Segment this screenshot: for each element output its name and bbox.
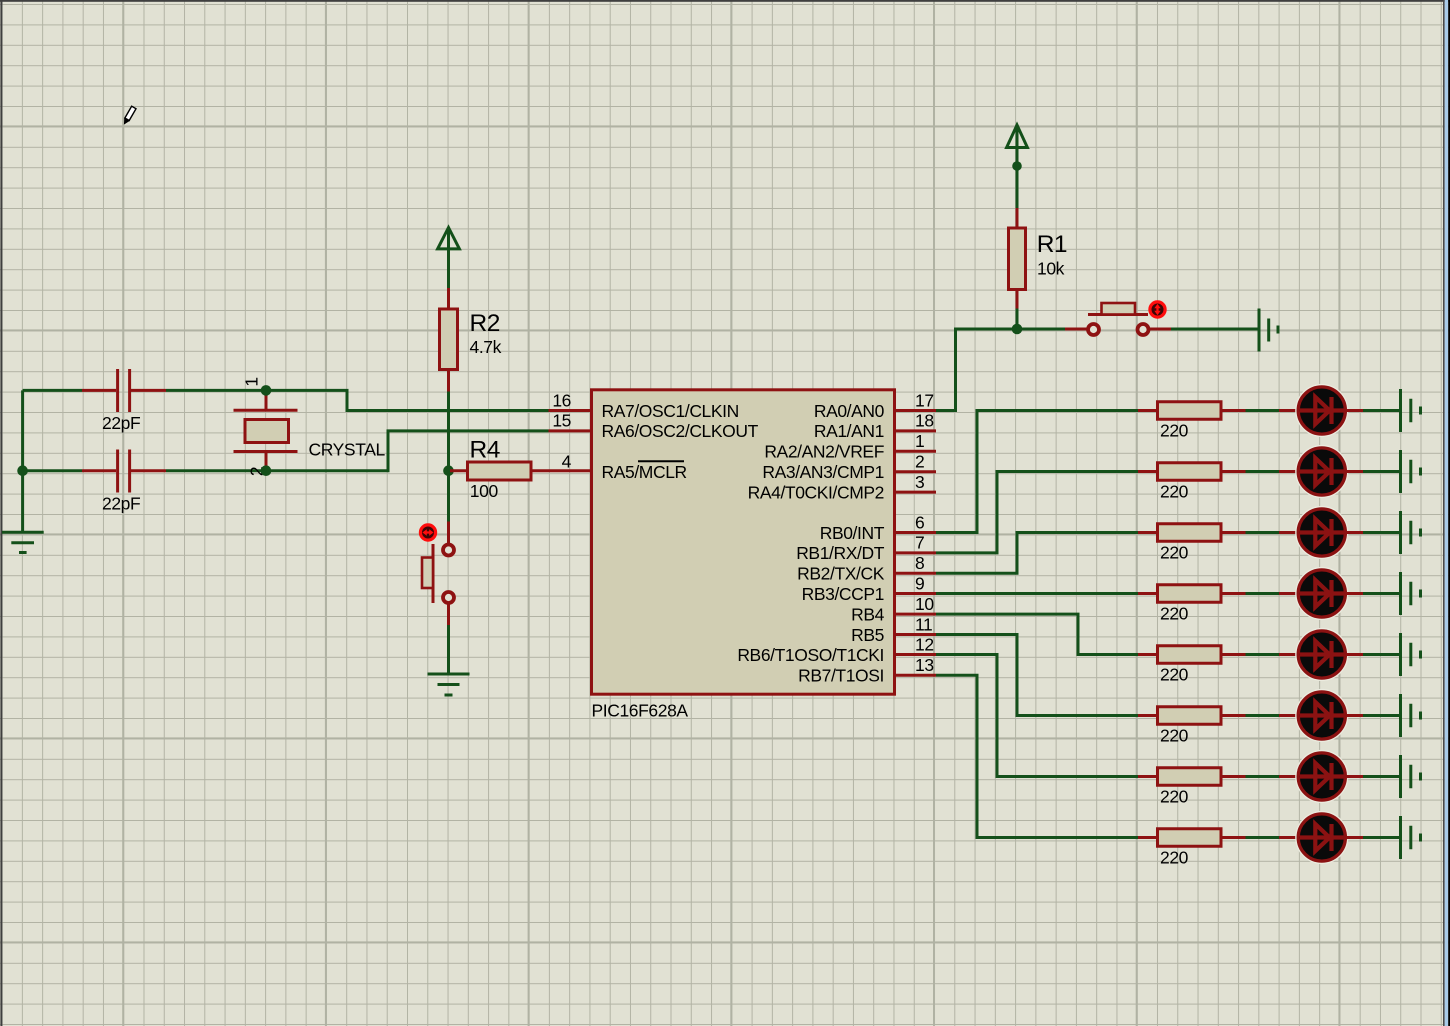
wire resistor to LED D1 xyxy=(1246,409,1280,412)
svg-text:15: 15 xyxy=(552,411,571,431)
svg-text:RB0/INT: RB0/INT xyxy=(820,523,885,543)
LED D2 cathode lead xyxy=(1346,470,1364,473)
svg-text:4: 4 xyxy=(562,452,572,472)
svg-text:10: 10 xyxy=(915,594,934,614)
svg-text:22pF: 22pF xyxy=(102,413,140,433)
IC U1 PIC16F628A body xyxy=(592,390,895,694)
LED D7 symbol xyxy=(1300,763,1344,790)
resistor R5L lead right xyxy=(1221,653,1246,656)
crystal X1 plates xyxy=(234,410,298,451)
LED D3 symbol xyxy=(1300,519,1344,546)
crystal X1 pin 1 lead xyxy=(265,393,268,410)
resistor R2 lead bottom xyxy=(447,370,450,392)
svg-text:220: 220 xyxy=(1160,664,1189,684)
LED row 3: resistor lead left xyxy=(1138,531,1158,534)
svg-text:220: 220 xyxy=(1160,603,1189,623)
LED D5 anode lead xyxy=(1279,653,1298,656)
svg-text:2: 2 xyxy=(915,452,924,472)
wire LED D5 to ground xyxy=(1363,653,1400,656)
wire rail to pin17 xyxy=(936,329,1065,411)
resistor R8L lead right xyxy=(1221,836,1246,839)
ground (crystal left) xyxy=(2,532,44,552)
resistor R3L 220 body xyxy=(1158,524,1222,542)
svg-text:RA5/MCLR: RA5/MCLR xyxy=(602,462,687,482)
wire resistor to LED D5 xyxy=(1246,653,1280,656)
push button SW1 actuator xyxy=(432,544,435,603)
svg-text:RB5: RB5 xyxy=(851,625,884,645)
pin 16 stub xyxy=(549,409,592,412)
MCLR overline xyxy=(638,460,684,462)
LED row 8: resistor lead left xyxy=(1138,836,1158,839)
LED D4 body xyxy=(1296,568,1348,620)
wire pin10 to LED row5 xyxy=(936,614,1138,654)
resistor R8L 220 body xyxy=(1158,829,1222,847)
resistor R3L lead right xyxy=(1221,531,1246,534)
resistor R1 lead bottom xyxy=(1016,290,1019,309)
LED D2 body xyxy=(1296,446,1348,498)
resistor R1 body xyxy=(1009,228,1026,290)
button actuator marker (vertical switch) xyxy=(420,525,435,540)
wire power to R1 xyxy=(1016,166,1019,208)
svg-text:1: 1 xyxy=(242,377,262,386)
svg-text:12: 12 xyxy=(915,634,934,654)
ground (LED row 5) xyxy=(1401,633,1421,676)
LED D8 symbol xyxy=(1300,824,1344,851)
resistor R7L lead right xyxy=(1221,775,1246,778)
svg-text:RA6/OSC2/CLKOUT: RA6/OSC2/CLKOUT xyxy=(602,421,759,441)
svg-text:RA0/AN0: RA0/AN0 xyxy=(814,401,885,421)
svg-text:9: 9 xyxy=(915,573,924,593)
svg-text:16: 16 xyxy=(552,390,571,410)
resistor R4L lead right xyxy=(1221,592,1246,595)
wire pin13 to LED row8 xyxy=(936,675,1138,837)
wire SW1 to ground xyxy=(447,625,450,674)
wire resistor to LED D2 xyxy=(1246,470,1280,473)
crystal X1 body xyxy=(245,420,289,443)
svg-text:RA3/AN3/CMP1: RA3/AN3/CMP1 xyxy=(762,462,884,482)
resistor R6L 220 body xyxy=(1158,707,1222,725)
push button SW2 lead right xyxy=(1150,328,1171,331)
LED D5 body xyxy=(1296,629,1348,681)
wire pin8 to LED row3 xyxy=(936,533,1138,574)
pin 15 stub xyxy=(549,429,592,432)
LED D1 cathode lead xyxy=(1346,409,1364,412)
resistor R2L lead right xyxy=(1221,470,1246,473)
LED row 5: resistor lead left xyxy=(1138,653,1158,656)
resistor R6L lead right xyxy=(1221,714,1246,717)
wire pin6 to LED row1 xyxy=(936,411,1138,533)
wire cap2 to crystal node to chip pin15 xyxy=(166,431,549,471)
LED row 1: resistor lead left xyxy=(1138,409,1158,412)
wire resistor to LED D6 xyxy=(1246,714,1280,717)
LED D6 body xyxy=(1296,690,1348,742)
power symbol VCC (R1) xyxy=(1007,125,1028,166)
wire R2 to node xyxy=(447,392,450,522)
svg-text:10k: 10k xyxy=(1037,259,1065,279)
capacitor C2 plates xyxy=(118,450,130,493)
crystal X1 pin 2 lead xyxy=(265,452,268,468)
node C left rail xyxy=(17,465,28,476)
svg-text:RB3/CCP1: RB3/CCP1 xyxy=(802,584,884,604)
svg-text:RB1/RX/DT: RB1/RX/DT xyxy=(796,543,885,563)
LED D3 body xyxy=(1296,507,1348,559)
LED row 2: resistor lead left xyxy=(1138,470,1158,473)
wire OSC1 top rail xyxy=(23,389,82,392)
svg-text:RB4: RB4 xyxy=(851,604,885,624)
LED D2 anode lead xyxy=(1279,470,1298,473)
resistor R1L 220 body xyxy=(1158,402,1222,420)
LED D1 body xyxy=(1296,385,1348,437)
LED D6 cathode lead xyxy=(1346,714,1364,717)
wire cap1 to crystal node to chip pin16 xyxy=(166,390,549,410)
wire left vertical to ground xyxy=(21,390,24,532)
pencil cursor xyxy=(121,106,136,126)
LED D1 anode lead xyxy=(1279,409,1298,412)
LED D2 symbol xyxy=(1300,458,1344,485)
push button SW2 actuator xyxy=(1088,313,1148,316)
LED D1 symbol xyxy=(1300,397,1344,424)
resistor R1L lead right xyxy=(1221,409,1246,412)
svg-text:RA2/AN2/VREF: RA2/AN2/VREF xyxy=(764,442,884,462)
wire resistor to LED D8 xyxy=(1246,836,1280,839)
resistor R2L 220 body xyxy=(1158,463,1222,481)
right pin stubs RB xyxy=(895,531,937,534)
LED row 7: resistor lead left xyxy=(1138,775,1158,778)
resistor R4 lead left xyxy=(450,469,468,472)
svg-text:18: 18 xyxy=(915,411,934,431)
node B crystal bottom xyxy=(261,465,272,476)
capacitor C2 22pF leads xyxy=(82,469,166,472)
svg-text:100: 100 xyxy=(470,481,499,501)
wire pin12 to LED row7 xyxy=(936,655,1138,777)
capacitor C1 plates xyxy=(118,369,130,412)
wire LED D2 to ground xyxy=(1363,470,1400,473)
window border top xyxy=(0,0,1450,2)
svg-text:4.7k: 4.7k xyxy=(470,337,502,357)
wire rail to SW2 xyxy=(1017,328,1065,331)
svg-text:7: 7 xyxy=(915,533,924,553)
node A crystal top xyxy=(261,385,272,396)
svg-text:11: 11 xyxy=(915,614,932,634)
ground (LED row 4) xyxy=(1401,572,1421,615)
ground (LED row 3) xyxy=(1401,511,1421,554)
push button SW2 button xyxy=(1102,303,1136,315)
resistor R4L 220 body xyxy=(1158,585,1222,603)
ground (LED row 7) xyxy=(1401,755,1421,798)
LED D8 cathode lead xyxy=(1346,836,1364,839)
window border right: gray line, blue strip, black strip xyxy=(1443,0,1445,1026)
wire SW2 to ground xyxy=(1171,328,1259,331)
LED D7 cathode lead xyxy=(1346,775,1364,778)
ground (LED row 6) xyxy=(1401,694,1421,737)
svg-text:RB2/TX/CK: RB2/TX/CK xyxy=(797,564,885,584)
resistor R2 lead top xyxy=(447,288,450,309)
wire LED D3 to ground xyxy=(1363,531,1400,534)
resistor R4 body xyxy=(468,462,532,480)
resistor R2 body xyxy=(440,309,458,370)
svg-text:RA4/T0CKI/CMP2: RA4/T0CKI/CMP2 xyxy=(748,482,884,502)
svg-text:RA7/OSC1/CLKIN: RA7/OSC1/CLKIN xyxy=(602,401,739,421)
svg-text:1: 1 xyxy=(915,431,924,451)
svg-text:R2: R2 xyxy=(470,310,500,337)
LED D7 anode lead xyxy=(1279,775,1298,778)
svg-text:13: 13 xyxy=(915,655,934,675)
wire LED D6 to ground xyxy=(1363,714,1400,717)
right pin stubs RA xyxy=(895,409,937,412)
ground (LED row 2) xyxy=(1401,450,1421,493)
svg-text:220: 220 xyxy=(1160,542,1189,562)
push button SW1 terminal 2 xyxy=(443,592,454,603)
window border left xyxy=(0,0,2,1026)
node F R1 bottom xyxy=(1012,324,1023,335)
wire LED D4 to ground xyxy=(1363,592,1400,595)
push button SW2 terminal 1 xyxy=(1088,324,1099,335)
wire pin11 to LED row6 xyxy=(936,635,1138,716)
wire resistor to LED D4 xyxy=(1246,592,1280,595)
LED D4 anode lead xyxy=(1279,592,1298,595)
svg-text:220: 220 xyxy=(1160,725,1189,745)
LED D4 cathode lead xyxy=(1346,592,1364,595)
resistor R7L 220 body xyxy=(1158,768,1222,786)
svg-text:PIC16F628A: PIC16F628A xyxy=(592,701,689,721)
LED D7 body xyxy=(1296,751,1348,803)
ground (under SW1) xyxy=(428,674,470,695)
wire resistor to LED D3 xyxy=(1246,531,1280,534)
LED D6 symbol xyxy=(1300,702,1344,729)
svg-text:RA1/AN1: RA1/AN1 xyxy=(814,421,884,441)
LED D5 cathode lead xyxy=(1346,653,1364,656)
resistor R4 lead right to pin 4 xyxy=(531,469,592,472)
svg-text:CRYSTAL: CRYSTAL xyxy=(309,440,386,460)
svg-text:220: 220 xyxy=(1160,847,1189,867)
push button SW1 terminal 1 xyxy=(443,545,454,556)
svg-text:RB7/T1OSI: RB7/T1OSI xyxy=(798,666,884,686)
push button SW1 bottom lead xyxy=(447,605,450,626)
LED row 4: resistor lead left xyxy=(1138,592,1158,595)
ground (LED row 8) xyxy=(1401,816,1421,859)
push button SW1 top lead xyxy=(447,522,450,544)
resistor R5L 220 body xyxy=(1158,646,1222,664)
LED D4 symbol xyxy=(1300,580,1344,607)
button actuator marker (horizontal switch) xyxy=(1150,302,1165,317)
push button SW2 terminal 2 xyxy=(1138,324,1149,335)
LED D3 cathode lead xyxy=(1346,531,1364,534)
LED D8 body xyxy=(1296,812,1348,864)
capacitor C1 22pF leads xyxy=(82,389,166,392)
svg-text:6: 6 xyxy=(915,512,924,532)
ground (right of SW2) xyxy=(1259,309,1278,352)
LED D6 anode lead xyxy=(1279,714,1298,717)
node E power/R1 xyxy=(1012,161,1022,171)
LED row 6: resistor lead left xyxy=(1138,714,1158,717)
svg-text:220: 220 xyxy=(1160,420,1189,440)
svg-text:17: 17 xyxy=(915,390,934,410)
wire LED D1 to ground xyxy=(1363,409,1400,412)
wire pin9 to LED row4 xyxy=(936,592,1138,595)
push button SW2 lead left xyxy=(1065,328,1087,331)
power symbol VCC (R2) xyxy=(438,228,460,289)
svg-text:220: 220 xyxy=(1160,786,1189,806)
svg-text:R1: R1 xyxy=(1037,231,1067,258)
ground (LED row 1) xyxy=(1401,389,1421,432)
LED D5 symbol xyxy=(1300,641,1344,668)
node D R4 left xyxy=(443,465,454,476)
wire OSC2 bottom rail xyxy=(23,469,82,472)
svg-text:8: 8 xyxy=(915,553,924,573)
svg-text:R4: R4 xyxy=(470,436,500,463)
svg-text:3: 3 xyxy=(915,472,924,492)
LED D8 anode lead xyxy=(1279,836,1298,839)
svg-text:220: 220 xyxy=(1160,481,1189,501)
resistor R1 lead top xyxy=(1016,208,1019,228)
svg-text:22pF: 22pF xyxy=(102,493,140,513)
wire resistor to LED D7 xyxy=(1246,775,1280,778)
wire pin7 to LED row2 xyxy=(936,472,1138,553)
wire LED D8 to ground xyxy=(1363,836,1400,839)
push button SW1 button xyxy=(422,558,433,589)
wire R1 to rail xyxy=(1016,309,1019,330)
LED D3 anode lead xyxy=(1279,531,1298,534)
svg-text:RB6/T1OSO/T1CKI: RB6/T1OSO/T1CKI xyxy=(737,645,884,665)
wire LED D7 to ground xyxy=(1363,775,1400,778)
